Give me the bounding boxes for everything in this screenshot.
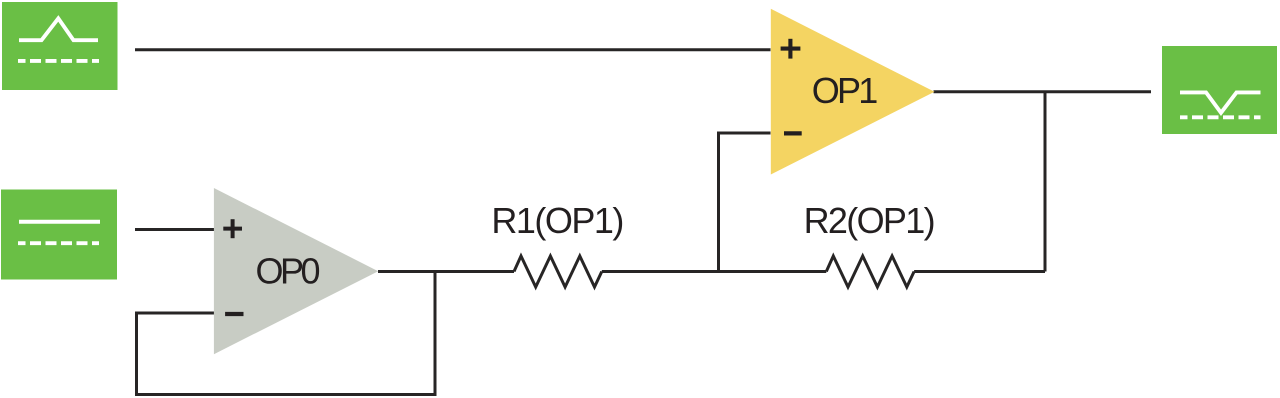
wire IN2 to OP0 + input xyxy=(135,228,214,231)
wire OP0 output to R1 xyxy=(378,270,514,273)
input source icon IN1 (pulse waveform) xyxy=(2,2,118,90)
wire R2 to feedback vertical xyxy=(914,270,1045,273)
svg-text:R2(OP1): R2(OP1) xyxy=(804,200,936,241)
svg-text:R1(OP1): R1(OP1) xyxy=(491,200,624,241)
output icon OUT (inverted pulse waveform) xyxy=(1162,46,1277,134)
svg-text:OP1: OP1 xyxy=(812,70,879,111)
wire OP1 output to OUT icon xyxy=(934,90,1152,93)
op-amp OP0 (buffer) xyxy=(214,188,378,354)
svg-text:OP0: OP0 xyxy=(256,250,321,291)
wire IN1 to OP1 + input xyxy=(135,48,771,51)
input source icon IN2 (dc level) xyxy=(1,190,117,280)
resistor R1(OP1) xyxy=(491,200,624,287)
wire feedback vertical to OP1 output xyxy=(1044,92,1047,272)
wire R1 to R2 (node) xyxy=(602,270,827,273)
wire node to OP1 - input xyxy=(719,133,771,272)
resistor R2(OP1) xyxy=(804,200,936,287)
wire OP0 feedback loop (output to inverting input) xyxy=(137,272,436,395)
op-amp OP1 xyxy=(771,9,935,175)
